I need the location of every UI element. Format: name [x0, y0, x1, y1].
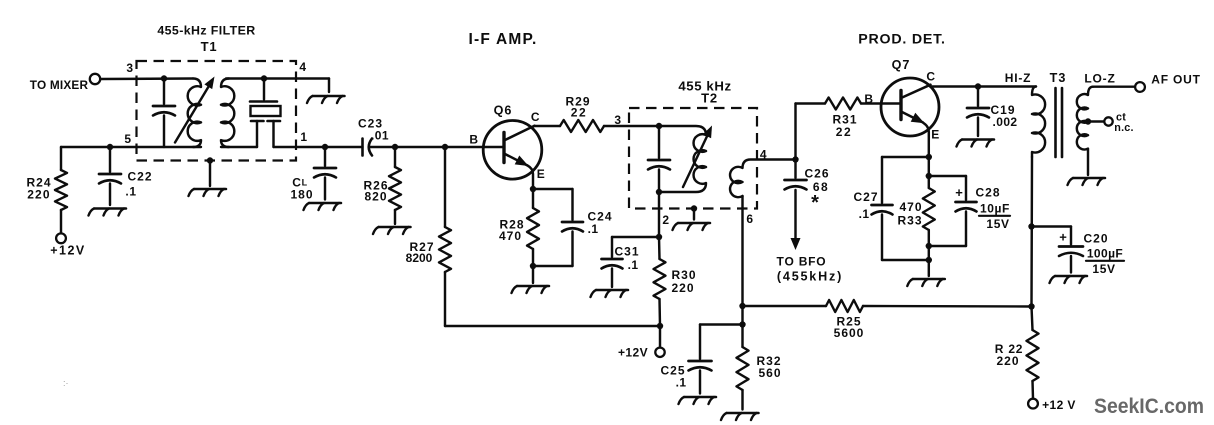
- label pin 1 of T1: [300, 130, 307, 144]
- svg-text:220: 220: [671, 281, 694, 295]
- svg-text:3: 3: [126, 61, 133, 75]
- node Q7 emitter junction: [926, 154, 932, 160]
- svg-text:+: +: [1059, 230, 1067, 245]
- node T2 pin3 junction: [656, 123, 662, 129]
- node C19 junction: [975, 83, 981, 89]
- capacitor C22: [99, 147, 153, 199]
- svg-text:470: 470: [499, 229, 522, 243]
- wire T1 center tap stem: [209, 161, 211, 187]
- wire C23 to Q6 base: [370, 146, 503, 148]
- svg-text:5600: 5600: [834, 326, 865, 340]
- crystal filter element: [250, 79, 281, 148]
- wire pin6 to R25: [743, 305, 827, 307]
- svg-text:C22: C22: [127, 170, 152, 184]
- node C25 junction: [739, 321, 745, 327]
- resistor R28: [499, 189, 539, 249]
- svg-text:E: E: [537, 167, 546, 181]
- svg-text:820: 820: [364, 190, 387, 204]
- wire T1 bottom to crystal: [221, 146, 257, 148]
- svg-text::·: :·: [63, 378, 69, 388]
- capacitor C28: [929, 176, 1010, 246]
- svg-text:.1: .1: [588, 222, 599, 236]
- capacitor C23: [358, 117, 389, 156]
- ground CL: [304, 203, 342, 210]
- label TO BFO: [777, 255, 844, 284]
- node R33 bottom junction: [926, 243, 932, 249]
- svg-text:2: 2: [662, 213, 669, 227]
- terminal +12V middle: [618, 345, 665, 359]
- arrow T1 tuning: [175, 77, 215, 143]
- svg-text:(455kHz): (455kHz): [777, 270, 843, 284]
- terminal +12V left: [50, 233, 86, 257]
- svg-text:.1: .1: [676, 375, 687, 389]
- svg-text:B: B: [469, 133, 478, 147]
- svg-text:.1: .1: [125, 185, 136, 199]
- label pin 5 of T1: [124, 132, 131, 146]
- wire C19 to ground: [977, 118, 979, 137]
- transistor Q7: [864, 58, 939, 157]
- capacitor inside T2: [648, 126, 670, 192]
- inductor T3 primary: [1032, 87, 1045, 158]
- svg-text:.002: .002: [993, 115, 1018, 129]
- label 455-kHz FILTER: [157, 24, 255, 38]
- svg-text:22: 22: [571, 105, 588, 119]
- inductor T1 secondary: [221, 79, 234, 148]
- label pin 3 of T2: [614, 113, 621, 127]
- transistor Q6: [469, 104, 545, 190]
- wire rail to terminal: [659, 326, 661, 347]
- svg-text:T2: T2: [701, 90, 718, 105]
- node R33 top junction: [926, 173, 932, 179]
- wire +12V rail: [445, 325, 660, 327]
- svg-text:470: 470: [899, 200, 922, 214]
- wire R29 to T2 pin3: [604, 125, 659, 127]
- resistor R25: [826, 300, 864, 340]
- ground Q7 emitter: [907, 279, 945, 286]
- svg-text:TO BFO: TO BFO: [777, 255, 827, 269]
- svg-text:+: +: [955, 185, 963, 200]
- svg-text:15V: 15V: [986, 217, 1009, 231]
- svg-text:220: 220: [27, 188, 51, 202]
- node T2 bottom junction: [656, 189, 662, 195]
- label pin 4 of T2: [760, 148, 767, 162]
- capacitor CL: [290, 147, 336, 202]
- node R26 junction: [392, 144, 398, 150]
- label AF OUT: [1151, 73, 1200, 87]
- wire CL to ground: [324, 178, 326, 200]
- svg-text:4: 4: [299, 60, 306, 74]
- capacitor inside T1: [153, 79, 175, 148]
- ground T1 center tap: [189, 189, 227, 196]
- label pin 6 of T2: [746, 212, 753, 226]
- node T2 center tap: [691, 205, 697, 211]
- svg-text:C26: C26: [804, 167, 829, 181]
- wire R31 to Q7 base: [861, 102, 901, 104]
- ground T3 secondary: [1068, 178, 1106, 185]
- svg-text:.1: .1: [628, 258, 639, 272]
- label T3: [1050, 71, 1067, 85]
- wire secondary to AF OUT: [1093, 85, 1135, 87]
- svg-text:PROD. DET.: PROD. DET.: [858, 32, 946, 48]
- node T1 center tap: [207, 157, 213, 163]
- ground C22: [89, 209, 127, 216]
- svg-text:220: 220: [996, 354, 1019, 368]
- label PROD. DET.: [858, 32, 946, 48]
- inductor T2 primary: [659, 126, 706, 192]
- label LO-Z: [1084, 72, 1115, 86]
- wire C22 to ground: [109, 184, 111, 206]
- capacitor C20: [1032, 227, 1125, 276]
- wire C25 to ground: [699, 371, 701, 394]
- resistor R22: [995, 307, 1039, 382]
- node R25 left junction: [739, 303, 745, 309]
- resistor R32: [737, 325, 782, 391]
- svg-text:22: 22: [836, 125, 853, 139]
- ground R28: [512, 286, 550, 293]
- capacitor C26: [785, 160, 830, 215]
- wire C20 to ground: [1070, 256, 1072, 273]
- svg-text:HI-Z: HI-Z: [1005, 71, 1032, 85]
- label pin 3 of T1: [126, 61, 133, 75]
- resistor R24: [26, 170, 67, 210]
- svg-text:C: C: [531, 110, 540, 124]
- node C26 junction: [792, 156, 798, 162]
- node crystal top junction: [261, 75, 267, 81]
- wire R27 to +12V rail: [444, 272, 446, 326]
- svg-text:R33: R33: [897, 214, 922, 228]
- node C31 junction: [656, 234, 662, 240]
- wire R25 to R22: [863, 305, 1032, 308]
- svg-text:C27: C27: [853, 190, 878, 204]
- wire T2 pin2: [658, 192, 660, 237]
- core T3: [1056, 88, 1063, 157]
- node Q6 emitter junction: [530, 186, 536, 192]
- node +12V rail junction: [657, 323, 663, 329]
- svg-text:560: 560: [758, 366, 781, 380]
- svg-text:C28: C28: [975, 186, 1000, 200]
- capacitor C24: [533, 189, 613, 266]
- node R27 junction: [442, 144, 448, 150]
- transformer T2 dashed box: [629, 108, 757, 209]
- svg-text:C20: C20: [1083, 232, 1108, 246]
- inductor T1 primary: [188, 79, 201, 148]
- ground C19: [957, 140, 995, 147]
- wire center tap: [1088, 120, 1104, 122]
- svg-text:T3: T3: [1050, 71, 1067, 85]
- node pin3 junction: [161, 75, 167, 81]
- wire pin1 to C23: [296, 146, 363, 148]
- label I-F AMP.: [468, 31, 537, 48]
- wire crystal to pin1: [274, 146, 297, 148]
- ground R26: [373, 227, 411, 234]
- ground R32: [721, 413, 759, 420]
- svg-text:100µF: 100µF: [1087, 247, 1123, 261]
- svg-text:5: 5: [124, 132, 131, 146]
- wire T3 primary down: [1030, 157, 1033, 307]
- inductor T2 secondary: [730, 160, 795, 198]
- wire R33 bottom: [928, 230, 930, 276]
- svg-text:R30: R30: [671, 268, 696, 282]
- noise mark: [63, 378, 69, 388]
- wire T1 secondary top: [226, 77, 329, 79]
- svg-text:+12V: +12V: [618, 345, 648, 359]
- svg-text:n.c.: n.c.: [1114, 122, 1133, 134]
- wire Q7 collector: [930, 85, 1036, 87]
- capacitor C27: [853, 157, 928, 260]
- capacitor C31: [602, 237, 660, 272]
- capacitor C19: [967, 87, 1017, 129]
- inductor T3 secondary: [1077, 87, 1093, 175]
- resistor R26: [363, 147, 401, 210]
- wire Q6 collector: [534, 125, 560, 127]
- node T3 center tap: [1085, 118, 1091, 124]
- ground pin4 of T1: [307, 96, 345, 103]
- terminal AF OUT: [1135, 82, 1145, 92]
- svg-text:15V: 15V: [1092, 262, 1115, 276]
- wire T1 bottom internal: [137, 146, 202, 148]
- label pin 2 of T2: [662, 213, 669, 227]
- wire R32 to ground: [741, 390, 743, 410]
- svg-text:3: 3: [614, 113, 621, 127]
- svg-text:TO MIXER: TO MIXER: [30, 78, 89, 92]
- svg-text:E: E: [931, 128, 940, 142]
- label HI-Z: [1005, 71, 1032, 85]
- ground C31: [591, 290, 629, 297]
- ground T2 center tap: [673, 223, 711, 230]
- svg-text:Q7: Q7: [892, 58, 911, 72]
- resistor R27: [406, 147, 451, 272]
- wire input to T1: [100, 77, 193, 80]
- svg-text:I-F AMP.: I-F AMP.: [468, 31, 537, 48]
- wire pin5 to R24 corner: [61, 146, 137, 148]
- svg-text:.1: .1: [859, 207, 870, 221]
- wire R30 down: [658, 299, 661, 326]
- ground C25: [679, 397, 717, 404]
- resistor R30: [654, 237, 697, 299]
- wire pin4 stub: [328, 79, 330, 93]
- node ground junction Q7: [926, 257, 932, 263]
- terminal +12V right: [1028, 398, 1076, 412]
- svg-text:Q6: Q6: [494, 104, 513, 118]
- wire R28 to ground: [532, 249, 534, 283]
- arrow T2 tuning: [683, 126, 712, 188]
- arrow to BFO: [791, 238, 801, 250]
- wire pin4 up to R31: [796, 104, 826, 160]
- capacitor C25: [660, 325, 742, 390]
- node C22 junction: [107, 144, 113, 150]
- wire T2 center tap stem: [693, 209, 695, 220]
- svg-text:6: 6: [746, 212, 753, 226]
- label T2: [701, 90, 718, 105]
- svg-text:10µF: 10µF: [980, 202, 1010, 216]
- svg-text:SeekIC.com: SeekIC.com: [1094, 395, 1204, 418]
- label 455 kHz: [678, 79, 731, 94]
- svg-text:C: C: [926, 70, 935, 84]
- resistor R29: [560, 95, 604, 133]
- transformer T1 dashed box: [137, 61, 297, 161]
- wire R24 vertical: [60, 147, 62, 170]
- resistor R31: [825, 98, 861, 140]
- node R22 junction: [1028, 303, 1034, 309]
- ground C20: [1050, 276, 1088, 283]
- svg-text:+12V: +12V: [50, 244, 86, 258]
- svg-text:4: 4: [760, 148, 767, 162]
- svg-text:LO-Z: LO-Z: [1084, 72, 1115, 86]
- svg-text:AF OUT: AF OUT: [1151, 73, 1200, 87]
- node R28 bottom junction: [530, 263, 536, 269]
- svg-text:1: 1: [300, 130, 307, 144]
- label T1: [201, 39, 218, 54]
- svg-text:.01: .01: [371, 129, 389, 143]
- wire R22 to +12V: [1031, 381, 1034, 399]
- terminal TO MIXER: [30, 74, 100, 92]
- svg-text:B: B: [864, 92, 873, 106]
- svg-text:180: 180: [290, 188, 313, 202]
- wire C31 to ground: [611, 269, 613, 288]
- wire R26 to ground: [394, 210, 396, 224]
- wire R24 to +12V: [60, 210, 62, 233]
- svg-text:C31: C31: [614, 245, 639, 259]
- node C20 junction: [1028, 223, 1034, 229]
- wire emitter junctions: [928, 157, 930, 188]
- svg-text:8200: 8200: [406, 251, 433, 265]
- resistor R33: [897, 188, 934, 230]
- svg-text:+12 V: +12 V: [1042, 398, 1076, 412]
- svg-text:*: *: [811, 192, 819, 214]
- wire T2 pin6 down: [741, 196, 743, 325]
- label pin 4 of T1: [299, 60, 306, 74]
- terminal ct n.c.: [1104, 112, 1133, 135]
- wire C26 to BFO arrow: [794, 190, 796, 239]
- svg-text:455-kHz FILTER: 455-kHz FILTER: [157, 24, 255, 38]
- svg-text:T1: T1: [201, 39, 218, 54]
- watermark SeekIC.com: [1094, 395, 1204, 418]
- node CL junction: [322, 144, 328, 150]
